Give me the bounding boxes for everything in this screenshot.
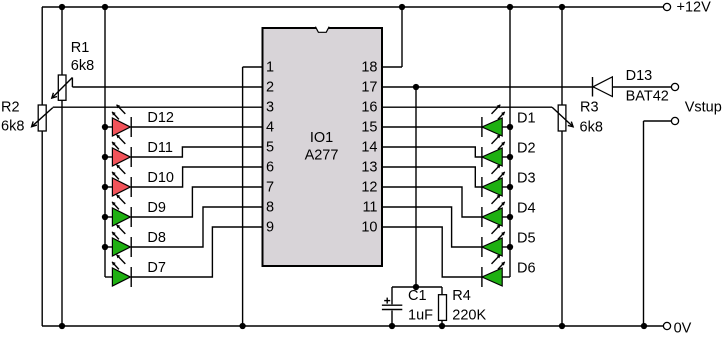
- LED D5: [482, 224, 510, 257]
- D5 label: [517, 230, 536, 246]
- svg-text:D6: D6: [517, 260, 536, 276]
- wire pin18 to +12V: [382, 7, 402, 67]
- svg-text:7: 7: [266, 180, 274, 196]
- junction right bus row 187: [507, 184, 513, 190]
- svg-text:D12: D12: [147, 110, 174, 126]
- op-amp IC IO1 A277 body: [263, 26, 383, 266]
- junction right bus row 247: [507, 244, 513, 250]
- R4 value 220K: [452, 307, 486, 323]
- svg-text:Vstup: Vstup: [685, 100, 722, 116]
- svg-text:17: 17: [361, 80, 377, 96]
- wire D2 cathode to pin 14: [382, 147, 482, 157]
- junction on 0V rail x=242.6: [239, 323, 245, 329]
- pin 1 number: [266, 60, 274, 76]
- junction left bus row 127: [102, 124, 108, 130]
- diode D13 BAT42: [593, 77, 613, 97]
- pin 14 number: [361, 140, 377, 156]
- svg-text:R1: R1: [71, 40, 90, 56]
- +12V label: [677, 0, 712, 16]
- R2 label: [1, 100, 20, 116]
- svg-text:6k8: 6k8: [580, 120, 603, 136]
- junction pin17/C1 branch: [413, 84, 419, 90]
- bottom rail 0V: [42, 325, 663, 327]
- svg-text:D7: D7: [147, 260, 166, 276]
- junction on +12V rail x=562: [559, 4, 565, 10]
- wire D8 cathode to pin 8: [131, 207, 262, 247]
- svg-text:4: 4: [266, 120, 274, 136]
- wire pin17 to D13 and Vstup: [382, 86, 671, 88]
- LED D2: [482, 134, 510, 167]
- LED D1: [482, 104, 510, 137]
- wire D1 cathode to pin 15: [382, 126, 482, 128]
- pin 10 number: [361, 220, 377, 236]
- svg-text:D4: D4: [517, 200, 536, 216]
- svg-text:D1: D1: [517, 110, 536, 126]
- R3 value 6k8: [580, 120, 603, 136]
- svg-text:R3: R3: [580, 100, 599, 116]
- svg-text:10: 10: [361, 220, 377, 236]
- svg-text:R4: R4: [452, 288, 471, 304]
- pin 12 number: [361, 180, 377, 196]
- R1 label: [71, 40, 90, 56]
- wire pin1 to 0V: [243, 67, 263, 326]
- wire Vstup ground to 0V rail: [644, 121, 672, 326]
- wire D3 cathode to pin 13: [382, 167, 482, 187]
- D13 value BAT42: [626, 88, 669, 104]
- junction right bus row 127: [507, 124, 513, 130]
- C1 value 1uF: [408, 307, 433, 323]
- R2 value 6k8: [1, 118, 24, 134]
- junction C1/R4 top: [413, 284, 419, 290]
- svg-text:6: 6: [266, 160, 274, 176]
- LED D9: [105, 194, 131, 227]
- terminal Vstup signal: [671, 83, 678, 90]
- R3 label: [580, 100, 599, 116]
- D2 label: [517, 140, 536, 156]
- pin 3 number: [266, 100, 274, 116]
- wire D6 cathode to pin 10: [382, 227, 482, 277]
- svg-text:3: 3: [266, 100, 274, 116]
- pin 18 number: [361, 60, 377, 76]
- pin 8 number: [266, 200, 274, 216]
- svg-text:0V: 0V: [674, 320, 692, 336]
- terminal Vstup ground: [671, 117, 678, 124]
- junction on 0V rail x=62: [59, 323, 65, 329]
- svg-text:15: 15: [361, 120, 377, 136]
- svg-text:C1: C1: [408, 288, 427, 304]
- wire D5 cathode to pin 11: [382, 207, 482, 247]
- D7 label: [147, 260, 166, 276]
- resistor R2 6k8 (trimmer): [32, 105, 263, 131]
- pin 15 number: [361, 120, 377, 136]
- LED D3: [482, 164, 510, 197]
- D10 label: [147, 170, 174, 186]
- junction on 0V rail x=562: [559, 323, 565, 329]
- svg-text:1uF: 1uF: [408, 307, 433, 323]
- junction on 0V rail x=392: [389, 323, 395, 329]
- 0V label: [674, 320, 692, 336]
- D8 label: [147, 230, 166, 246]
- LED D6: [482, 254, 510, 287]
- svg-text:5: 5: [266, 140, 274, 156]
- junction on +12V rail x=510: [507, 4, 513, 10]
- LED D7: [105, 254, 131, 287]
- left border wire (R2 branch): [41, 7, 43, 326]
- junction left bus row 157: [102, 154, 108, 160]
- pin 17 number: [361, 80, 377, 96]
- wire pin17 down to C1/R4: [415, 87, 417, 287]
- svg-text:A277: A277: [305, 148, 339, 164]
- D12 label: [147, 110, 174, 126]
- Vstup label: [685, 100, 722, 116]
- junction on +12V rail x=105: [102, 4, 108, 10]
- pin 4 number: [266, 120, 274, 136]
- junction on 0V rail x=644: [641, 323, 647, 329]
- IC label A277: [305, 148, 339, 164]
- capacitor C1 1uF: [382, 287, 416, 326]
- svg-text:BAT42: BAT42: [626, 88, 669, 104]
- svg-text:9: 9: [266, 220, 274, 236]
- resistor R1 6k8 (trimmer): [52, 7, 263, 326]
- svg-text:IO1: IO1: [310, 130, 333, 146]
- LED D10: [105, 164, 131, 197]
- svg-text:1: 1: [266, 60, 274, 76]
- svg-text:D13: D13: [626, 68, 653, 84]
- svg-text:11: 11: [362, 200, 377, 216]
- pin 7 number: [266, 180, 274, 196]
- wire D7 cathode to pin 9: [131, 227, 262, 277]
- svg-text:D9: D9: [147, 200, 166, 216]
- pin 2 number: [266, 80, 274, 96]
- top rail +12V: [42, 6, 663, 8]
- pin 11 number: [362, 200, 377, 216]
- D4 label: [517, 200, 536, 216]
- svg-text:14: 14: [361, 140, 377, 156]
- LED D12: [105, 104, 131, 137]
- svg-text:12: 12: [361, 180, 377, 196]
- left LED anode bus from +12V: [104, 7, 106, 277]
- terminal +12V: [663, 3, 670, 10]
- svg-text:8: 8: [266, 200, 274, 216]
- svg-text:D2: D2: [517, 140, 536, 156]
- C1 label: [408, 288, 427, 304]
- svg-text:D10: D10: [147, 170, 174, 186]
- svg-text:+12V: +12V: [677, 0, 712, 16]
- D6 label: [517, 260, 536, 276]
- LED D8: [105, 224, 131, 257]
- IC label IO1: [310, 130, 333, 146]
- D11 label: [147, 140, 173, 156]
- LED D4: [482, 194, 510, 227]
- D1 label: [517, 110, 536, 126]
- svg-text:6k8: 6k8: [1, 118, 24, 134]
- pin 13 number: [361, 160, 377, 176]
- wire D12 cathode to pin 4: [131, 126, 262, 128]
- terminal 0V: [663, 322, 670, 329]
- svg-text:16: 16: [361, 100, 377, 116]
- svg-text:2: 2: [266, 80, 274, 96]
- pin 6 number: [266, 160, 274, 176]
- pin 5 number: [266, 140, 274, 156]
- wire D11 cathode to pin 5: [131, 147, 262, 157]
- svg-text:6k8: 6k8: [71, 58, 94, 74]
- junction right bus row 157: [507, 154, 513, 160]
- R4 label: [452, 288, 471, 304]
- svg-text:D8: D8: [147, 230, 166, 246]
- D13 label: [626, 68, 653, 84]
- junction on +12V rail x=402: [399, 4, 405, 10]
- LED D11: [105, 134, 131, 167]
- svg-text:R2: R2: [1, 100, 20, 116]
- pin 9 number: [266, 220, 274, 236]
- wire D4 cathode to pin 12: [382, 187, 482, 217]
- wire D10 cathode to pin 6: [131, 167, 262, 187]
- junction right bus row 217: [507, 214, 513, 220]
- svg-text:220K: 220K: [452, 307, 486, 323]
- resistor R3 6k8 (trimmer): [382, 7, 573, 326]
- D9 label: [147, 200, 166, 216]
- junction on +12V rail x=62: [59, 4, 65, 10]
- pin 16 number: [361, 100, 377, 116]
- svg-text:D5: D5: [517, 230, 536, 246]
- R1 value 6k8: [71, 58, 94, 74]
- svg-text:18: 18: [361, 60, 377, 76]
- junction on 0V rail x=442: [439, 323, 445, 329]
- svg-text:13: 13: [361, 160, 377, 176]
- right LED anode bus from +12V: [509, 7, 511, 277]
- junction left bus row 217: [102, 214, 108, 220]
- D3 label: [517, 170, 536, 186]
- wire D9 cathode to pin 7: [131, 187, 262, 217]
- svg-text:D3: D3: [517, 170, 536, 186]
- junction left bus row 247: [102, 244, 108, 250]
- svg-text:D11: D11: [147, 140, 173, 156]
- resistor R4 220K: [416, 287, 447, 326]
- junction left bus row 187: [102, 184, 108, 190]
